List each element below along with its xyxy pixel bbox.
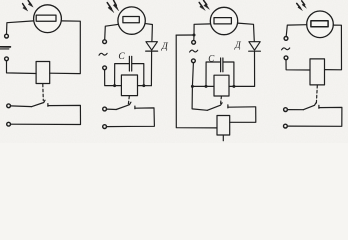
dashed relay link 4 bbox=[315, 85, 318, 103]
junction dot 2b bbox=[142, 84, 145, 87]
relay K1 bbox=[36, 62, 50, 84]
switch terminal t4 bbox=[7, 122, 11, 126]
wire t6 to relay K2 bbox=[105, 70, 122, 86]
terminal t14 bbox=[284, 56, 288, 60]
diode D3 wire to R3 bbox=[238, 23, 255, 41]
terminal t10 bbox=[192, 59, 196, 63]
terminal t1 bbox=[5, 34, 9, 38]
capacitor C3 branch right bbox=[223, 62, 234, 86]
wire contact to load bbox=[228, 107, 256, 123]
switch terminal t15 bbox=[284, 108, 288, 112]
photoresistor R4 body bbox=[311, 21, 328, 27]
fixed contact tick 2 bbox=[134, 106, 136, 109]
AC symbol circuit 2 bbox=[99, 53, 107, 55]
load box circuit 3 bbox=[217, 116, 230, 136]
dashed relay link 2 bbox=[128, 96, 129, 105]
capacitor C3 plates bbox=[220, 58, 222, 72]
diode D3 cathode bar bbox=[249, 50, 261, 52]
left rail circuit 3 bbox=[176, 35, 217, 128]
photoresistor R1 body bbox=[36, 15, 56, 21]
svg-text:C: C bbox=[118, 52, 125, 62]
relay K4 bbox=[310, 59, 325, 85]
junction dot 3c bbox=[205, 85, 208, 88]
fixed contact tick 3 bbox=[227, 105, 229, 108]
diode D3 triangle bbox=[249, 42, 260, 51]
photoresistor R3 body bbox=[214, 18, 231, 24]
switch terminal t7 bbox=[103, 107, 107, 111]
wire t10 down bbox=[192, 63, 193, 87]
diode D2 triangle bbox=[146, 42, 158, 50]
capacitor C3 branch left bbox=[206, 62, 220, 86]
relay contact blade 3 bbox=[207, 103, 222, 111]
wire relay K4 right to R4 bbox=[325, 25, 342, 70]
wire t3 to contact bbox=[11, 105, 32, 108]
capacitor C2 branch left bbox=[115, 64, 129, 86]
wire R1 left to terminal bbox=[7, 21, 34, 34]
wire t14 to relay K4 bbox=[286, 60, 310, 70]
junction dot 2a bbox=[113, 84, 116, 87]
AC symbol circuit 4 bbox=[282, 48, 290, 50]
junction dot 3d bbox=[232, 85, 235, 88]
terminal t13 bbox=[284, 37, 288, 41]
svg-text:Д: Д bbox=[161, 42, 169, 52]
wire R3 left bbox=[194, 24, 210, 35]
capacitor C2 plates bbox=[128, 56, 130, 71]
wire t2 to relay K1 bbox=[7, 61, 37, 74]
relay contact blade 1 bbox=[32, 100, 45, 106]
terminal t6 bbox=[103, 66, 107, 70]
diode D2 wire to R2 bbox=[145, 24, 152, 42]
wire contact loop 4 bbox=[287, 107, 342, 126]
fixed contact tick 4 bbox=[318, 105, 320, 108]
terminal t5 bbox=[103, 40, 107, 44]
photoresistor R1 circle bbox=[34, 5, 62, 33]
wire R4 left to terminal bbox=[286, 25, 307, 37]
dashed relay link 3 bbox=[220, 96, 223, 103]
capacitor C2 branch right bbox=[132, 64, 144, 86]
photoresistor R2 body bbox=[123, 17, 139, 23]
photoresistor R3 circle bbox=[210, 7, 237, 34]
relay contact blade 4 bbox=[303, 103, 316, 110]
wire t15 to contact bbox=[288, 109, 304, 111]
wire R2 left to terminal bbox=[105, 24, 118, 39]
photoresistor R2 circle bbox=[118, 7, 145, 34]
photoresistor R4 circle bbox=[307, 11, 334, 38]
wire contact loop 2 bbox=[107, 108, 155, 127]
wire to relay K3 bbox=[192, 85, 214, 87]
wire to left rail bbox=[176, 34, 194, 36]
light arrows circuit 2 bbox=[107, 0, 118, 12]
junction dot 3a bbox=[193, 34, 196, 37]
wire contact loop 1 bbox=[11, 105, 81, 124]
wire relay K1 right to R1 bbox=[50, 21, 81, 74]
wire relay K3 right to diode bbox=[229, 52, 255, 87]
relay K2 bbox=[121, 75, 137, 96]
load stub bbox=[222, 135, 224, 141]
svg-text:C: C bbox=[208, 53, 215, 63]
terminal t9 bbox=[192, 40, 196, 44]
fixed contact tick 1 bbox=[47, 104, 49, 107]
junction dot 3b bbox=[191, 85, 194, 88]
diode D2 cathode bar bbox=[146, 50, 158, 52]
light arrows circuit 4 bbox=[297, 1, 307, 11]
switch terminal t16 bbox=[284, 124, 288, 128]
terminal t2 bbox=[5, 57, 9, 61]
DC source symbol = bbox=[0, 46, 10, 48]
light arrows circuit 3 bbox=[199, 0, 209, 10]
switch terminal t3 bbox=[7, 104, 11, 108]
wire t7 to contact bbox=[107, 108, 117, 110]
dashed relay link 1 bbox=[42, 84, 45, 100]
relay contact blade 2 bbox=[116, 102, 131, 109]
switch terminal t8 bbox=[103, 125, 107, 129]
wire t10 branch to contact bbox=[192, 86, 207, 110]
wire dot to terminal bbox=[193, 35, 195, 40]
relay K3 bbox=[214, 75, 229, 96]
wire relay K2 right to diode bbox=[138, 51, 152, 85]
AC symbol circuit 3 bbox=[190, 50, 198, 52]
light arrows circuit 1 bbox=[23, 1, 33, 11]
